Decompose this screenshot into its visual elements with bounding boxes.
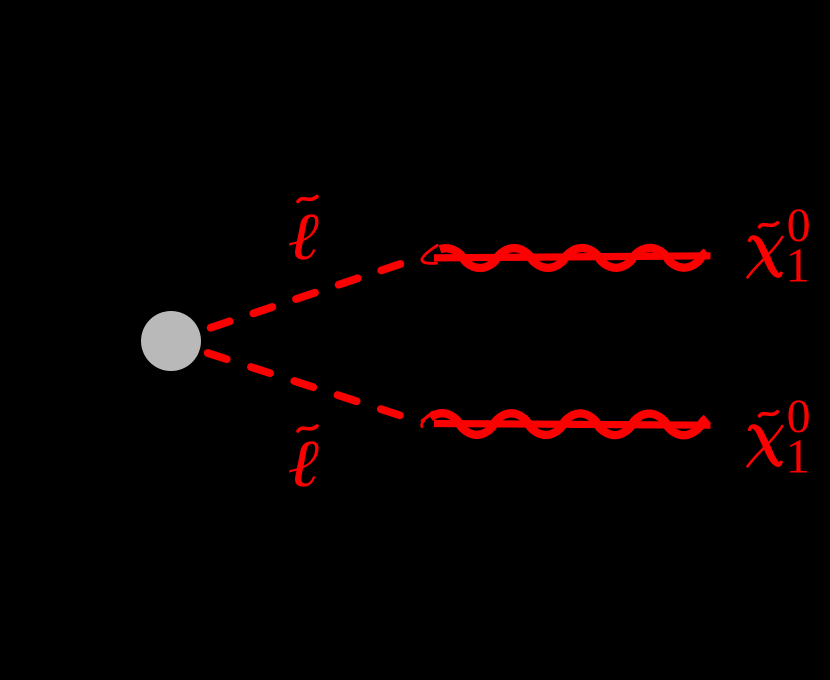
svg-text:1: 1	[786, 238, 811, 293]
svg-text:ℓ: ℓ	[288, 200, 320, 274]
svg-text:1: 1	[786, 429, 811, 484]
svg-text:ℓ: ℓ	[288, 427, 320, 501]
